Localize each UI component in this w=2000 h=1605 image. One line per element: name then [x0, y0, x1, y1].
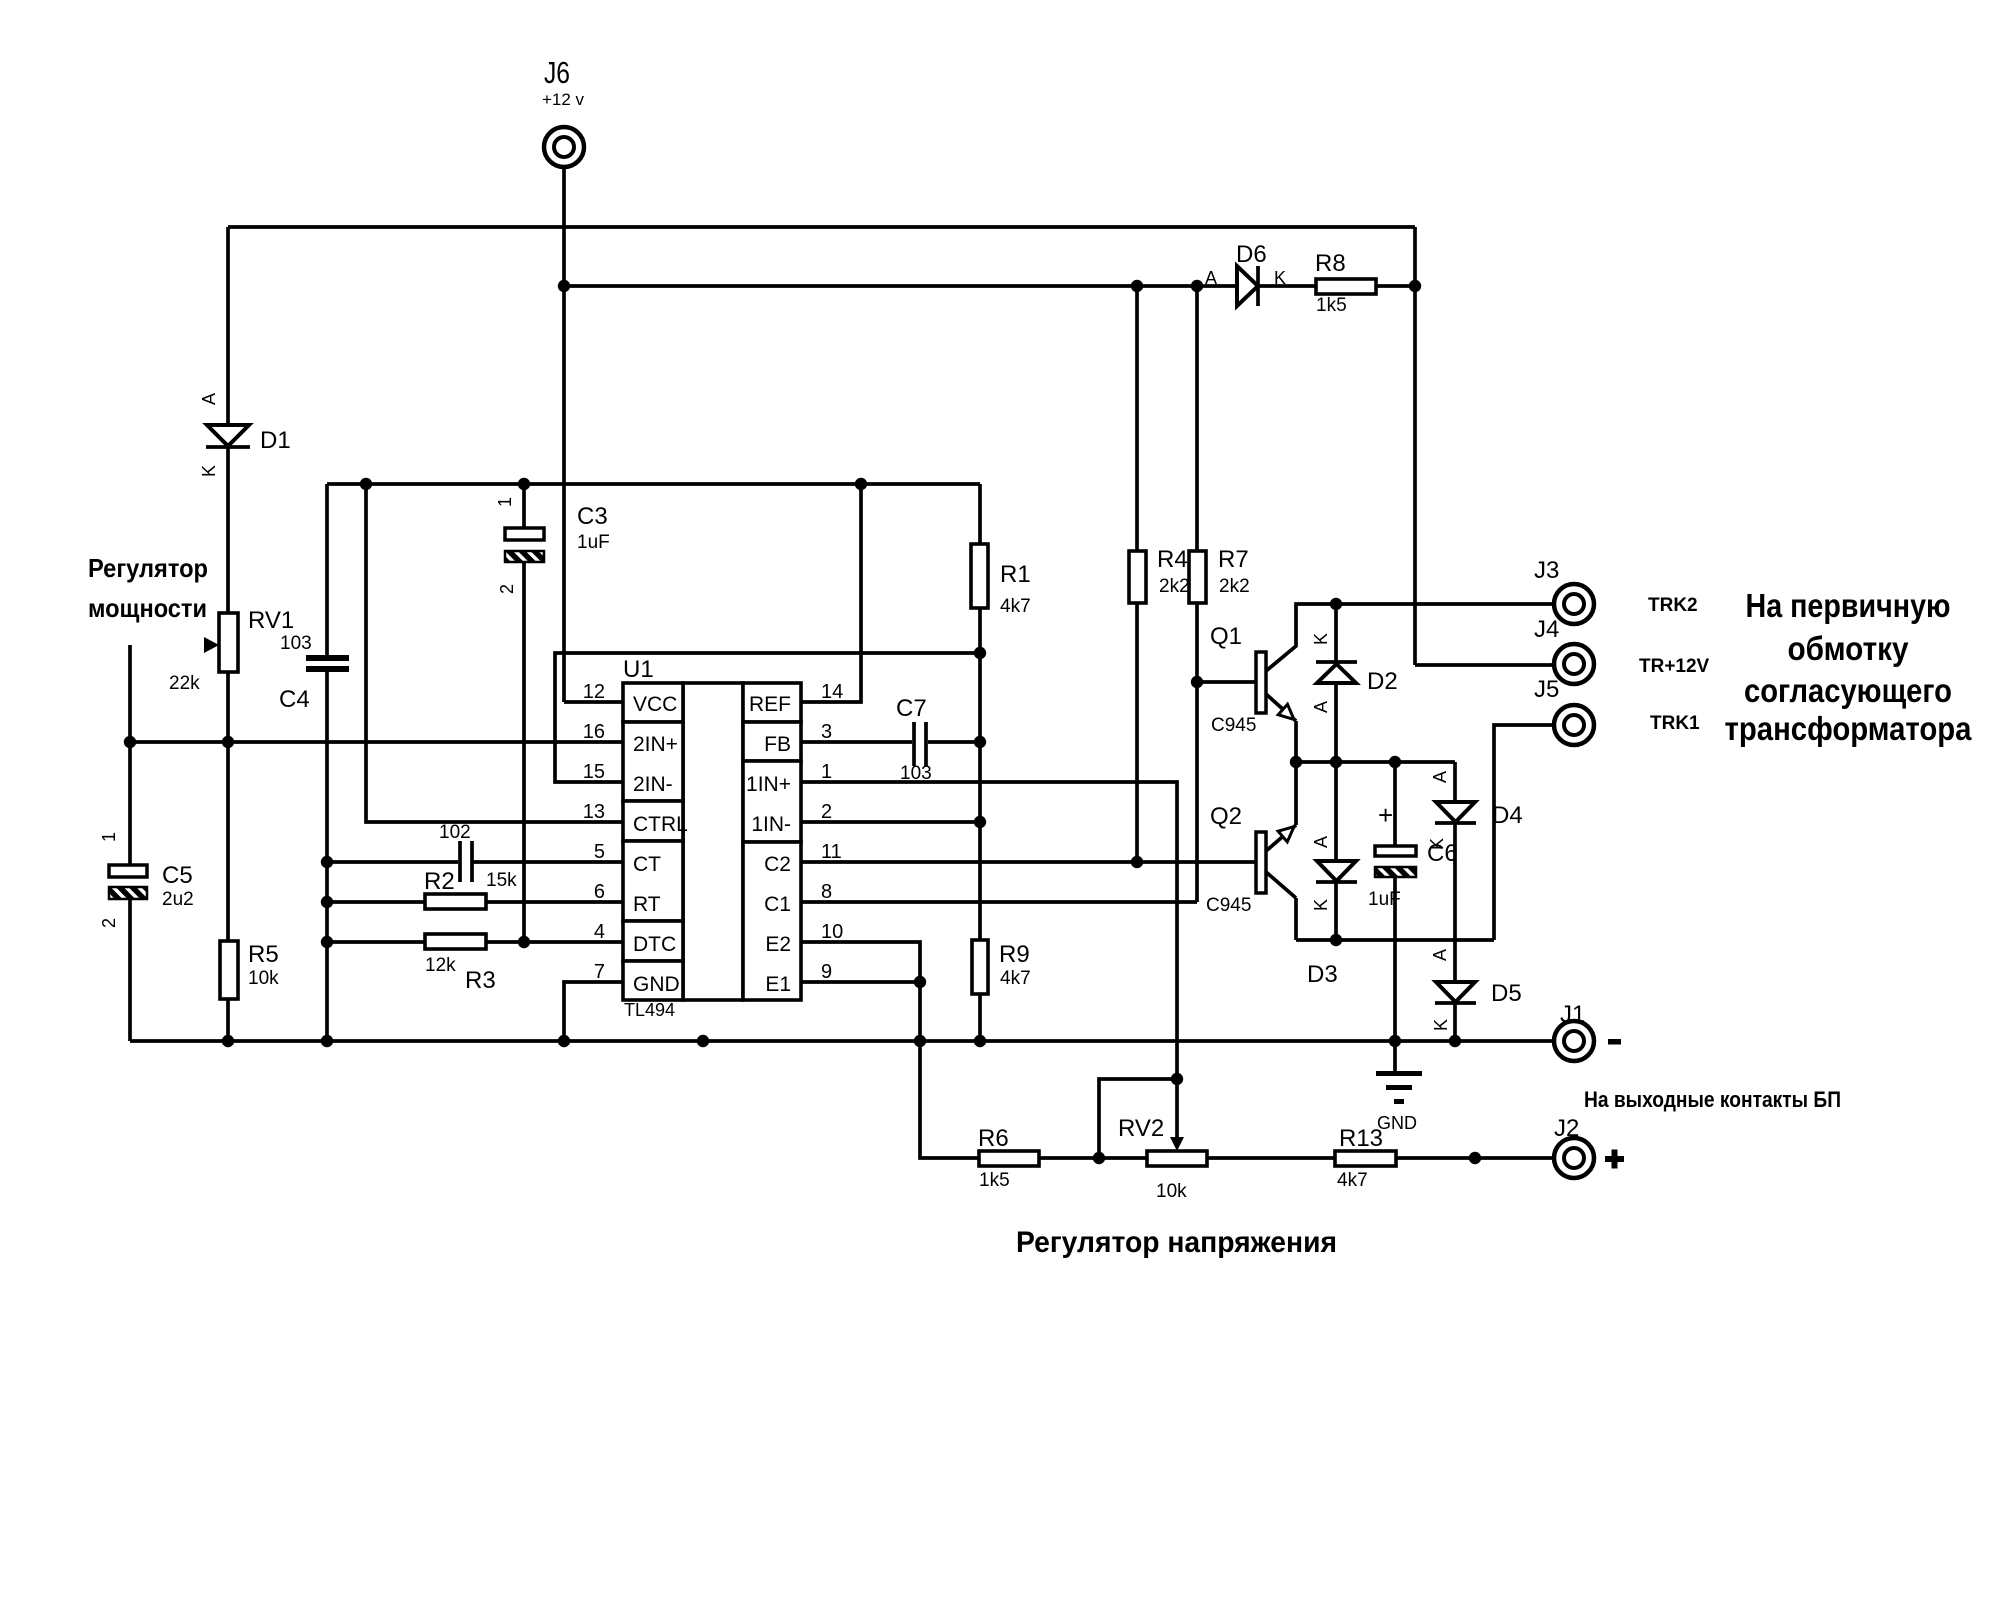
wire FB right of C7 [928, 740, 980, 744]
svg-text:R4: R4 [1157, 546, 1188, 573]
wire RT line right [486, 900, 623, 904]
U1 pin 6 RT [594, 881, 661, 916]
wire R1 bottom to R9 [978, 608, 982, 940]
svg-text:R1: R1 [1000, 561, 1031, 588]
svg-text:R2: R2 [424, 868, 455, 895]
svg-text:5: 5 [594, 841, 605, 863]
resistor R1 [971, 544, 1031, 617]
wire R9 bottom lead [978, 994, 982, 1041]
wire D4 top lead [1453, 762, 1457, 802]
connector J5 TRK1 [1534, 676, 1594, 745]
wire J4 wire [1415, 663, 1554, 667]
svg-text:102: 102 [439, 822, 471, 843]
resistor R2 [424, 868, 517, 909]
wire DTC line right [486, 940, 623, 944]
svg-text:D5: D5 [1491, 980, 1522, 1007]
node junction at 1336,940 [1330, 934, 1342, 946]
node junction at 980,653 [974, 647, 986, 659]
wire C6 top lead [1393, 762, 1397, 846]
wire RV2 wiper shaft [1175, 1079, 1179, 1140]
svg-text:E2: E2 [765, 933, 791, 956]
svg-text:D4: D4 [1492, 802, 1523, 829]
svg-text:14: 14 [821, 681, 843, 703]
wire D6 to R8 [1258, 284, 1316, 288]
node junction at 1099,1158 [1093, 1152, 1105, 1164]
resistor R8 [1315, 250, 1376, 316]
svg-text:J5: J5 [1534, 676, 1559, 703]
wire R1 top lead [978, 484, 982, 544]
svg-text:1uF: 1uF [1368, 889, 1401, 910]
resistor R3 [425, 934, 496, 994]
wire RV2-R13 wire [1207, 1156, 1335, 1160]
U1 pin 16 2IN+ [583, 721, 678, 756]
wire J5 route [1494, 725, 1554, 940]
label to primary winding [1725, 587, 1973, 747]
svg-text:Регулятор напряжения: Регулятор напряжения [1016, 1226, 1337, 1259]
transistor Q2 C945 [1206, 803, 1294, 916]
wire C4 top lead [325, 484, 329, 656]
svg-text:22k: 22k [169, 673, 200, 694]
svg-text:C7: C7 [896, 695, 927, 722]
svg-text:C945: C945 [1206, 895, 1251, 916]
svg-text:TL494: TL494 [624, 1000, 675, 1020]
svg-text:15: 15 [583, 761, 605, 783]
svg-text:J2: J2 [1554, 1115, 1579, 1142]
potentiometer RV2 [1118, 1115, 1207, 1202]
node junction at 564,1041 [558, 1035, 570, 1047]
resistor R7 [1189, 546, 1250, 603]
U1 pin 3 FB [764, 721, 832, 756]
svg-text:103: 103 [280, 633, 312, 654]
svg-text:7: 7 [594, 961, 605, 983]
svg-text:DTC: DTC [633, 933, 676, 956]
diode D2 [1311, 633, 1398, 713]
svg-text:D1: D1 [260, 427, 291, 454]
svg-text:R5: R5 [248, 941, 279, 968]
U1 pin 14 REF [749, 681, 843, 716]
op-amp U1 TL494 body [623, 656, 743, 1020]
wire R4 top lead [1135, 286, 1139, 551]
node junction at 366,484 [360, 478, 372, 490]
wire E1 line [801, 980, 920, 984]
svg-text:C2: C2 [764, 853, 791, 876]
U1 pin 12 VCC [583, 681, 678, 716]
svg-text:обмотку: обмотку [1788, 630, 1910, 667]
svg-text:На первичную: На первичную [1746, 587, 1951, 624]
U1 pin 10 E2 [765, 921, 843, 956]
wire R8 to corner [1376, 284, 1415, 288]
svg-text:K: K [1431, 1019, 1451, 1031]
svg-text:A: A [199, 393, 219, 405]
svg-text:K: K [199, 465, 219, 477]
capacitor 102 on CT [439, 822, 472, 882]
U1 pin 7 GND [594, 961, 680, 996]
wire Q2 collector [1266, 872, 1296, 940]
svg-text:1: 1 [495, 497, 515, 507]
svg-text:+: + [1378, 800, 1393, 830]
label TR+12V [1639, 656, 1710, 677]
svg-text:CTRL: CTRL [633, 813, 688, 836]
wire D6 anode wire [564, 284, 1237, 288]
label to PSU output contacts [1584, 1087, 1841, 1112]
node junction at 1336,762 [1330, 756, 1342, 768]
resistor R9 [972, 940, 1031, 994]
wire Q1 collector to J3 [1266, 604, 1554, 671]
wire D4-D5 link [1453, 823, 1457, 982]
svg-text:R7: R7 [1218, 546, 1249, 573]
wire REF net horizontal [327, 482, 980, 486]
svg-text:1IN-: 1IN- [751, 813, 791, 836]
U1 pin 2 1IN- [751, 801, 832, 836]
U1 left pin boxes [623, 683, 683, 1000]
U1 pin 11 C2 [764, 841, 842, 876]
node junction at 1395,762 [1389, 756, 1401, 768]
svg-text:2IN-: 2IN- [633, 773, 673, 796]
U1 pin 5 CT [594, 841, 661, 876]
node junction at 1197,682 [1191, 676, 1203, 688]
svg-text:A: A [1430, 771, 1450, 783]
svg-text:D2: D2 [1367, 668, 1398, 695]
node junction at 1197,286 [1191, 280, 1203, 292]
resistor R4 [1129, 546, 1190, 603]
svg-text:4k7: 4k7 [1000, 596, 1031, 617]
node junction at 703,1041 [697, 1035, 709, 1047]
svg-text:10k: 10k [1156, 1181, 1187, 1202]
wire DTC line left [327, 940, 425, 944]
svg-text:C1: C1 [764, 893, 791, 916]
U1 pin 1 1IN+ [746, 761, 832, 796]
node junction at 1415,286 [1409, 280, 1421, 292]
svg-text:J6: J6 [544, 55, 570, 90]
svg-text:FB: FB [764, 733, 791, 756]
svg-text:A: A [1311, 701, 1331, 713]
svg-text:R8: R8 [1315, 250, 1346, 277]
svg-text:согласующего: согласующего [1744, 672, 1952, 709]
node junction at 327,1041 [321, 1035, 333, 1047]
wire J6 down to VCC [564, 167, 623, 702]
U1 pin 4 DTC [594, 921, 676, 956]
node junction at 920,1041 [914, 1035, 926, 1047]
svg-text:RV1: RV1 [248, 607, 294, 634]
svg-text:TRK2: TRK2 [1648, 595, 1698, 616]
svg-text:A: A [1311, 836, 1331, 848]
svg-text:16: 16 [583, 721, 605, 743]
node junction at 980,1041 [974, 1035, 986, 1047]
resistor R5 [220, 941, 279, 999]
node junction at 1395,1041 [1389, 1035, 1401, 1047]
label TRK1 [1650, 713, 1700, 734]
wire RV1 to R5 via 2IN+ tap [226, 672, 230, 941]
capacitor C6 [1368, 800, 1458, 910]
svg-text:R6: R6 [978, 1125, 1009, 1152]
wire R13-J2 wire [1396, 1156, 1554, 1160]
wire D2-D3 middle [1334, 683, 1338, 861]
wire C4 bottom to ground [325, 672, 329, 1041]
svg-text:10: 10 [821, 921, 843, 943]
svg-text:Q2: Q2 [1210, 803, 1242, 830]
connector J2 plus [1554, 1115, 1624, 1178]
wire driver mid bus [1296, 760, 1455, 764]
U1 pin 13 CTRL [583, 801, 688, 836]
node junction at 228,742 [222, 736, 234, 748]
node junction at 980,822 [974, 816, 986, 828]
svg-text:1k5: 1k5 [979, 1170, 1010, 1191]
wire D2 top lead [1334, 604, 1338, 662]
svg-text:R13: R13 [1339, 1125, 1383, 1152]
svg-text:REF: REF [749, 693, 791, 716]
wire lower bus TRK1 [1296, 938, 1494, 942]
svg-text:C5: C5 [162, 862, 193, 889]
svg-text:K: K [1311, 633, 1331, 645]
wire C3 bottom lead to DTC [522, 562, 526, 942]
wire R7 top lead [1195, 286, 1199, 551]
svg-text:D6: D6 [1236, 241, 1267, 268]
wire RT line left [327, 900, 425, 904]
wire C5 branch upper [128, 645, 132, 865]
svg-text:A: A [1430, 949, 1450, 961]
diode D1 [199, 393, 291, 477]
wire D3 bottom lead [1334, 882, 1338, 940]
svg-text:9: 9 [821, 961, 832, 983]
svg-text:VCC: VCC [633, 693, 677, 716]
svg-text:2k2: 2k2 [1159, 576, 1190, 597]
wire FB left of C7 [801, 740, 912, 744]
diode D6 [1205, 241, 1286, 306]
svg-text:J4: J4 [1534, 616, 1559, 643]
svg-text:15k: 15k [486, 870, 517, 891]
node junction at 980,742 [974, 736, 986, 748]
svg-text:K: K [1311, 899, 1331, 911]
svg-text:U1: U1 [623, 656, 654, 683]
wire D5 bottom lead [1453, 1003, 1457, 1041]
wire C6 bottom lead to GND [1393, 877, 1397, 1071]
wire R4 bottom lead [1135, 603, 1139, 862]
svg-text:103: 103 [900, 763, 932, 784]
svg-text:трансформатора: трансформатора [1725, 710, 1973, 747]
svg-text:1uF: 1uF [577, 532, 610, 553]
U1 pin 15 2IN- [583, 761, 673, 796]
diode D3 [1307, 836, 1357, 988]
svg-text:CT: CT [633, 853, 661, 876]
svg-text:10k: 10k [248, 968, 279, 989]
U1 right pin boxes [743, 683, 801, 1000]
svg-text:4k7: 4k7 [1000, 968, 1031, 989]
svg-text:RT: RT [633, 893, 661, 916]
wire C5 branch lower [128, 899, 132, 1041]
svg-text:TRK1: TRK1 [1650, 713, 1700, 734]
svg-text:R3: R3 [465, 967, 496, 994]
node junction at 1336,604 [1330, 598, 1342, 610]
node junction at 327,942 [321, 936, 333, 948]
wire RV2 left terminal loop [1099, 1079, 1177, 1158]
label power regulator [88, 553, 208, 623]
svg-text:2k2: 2k2 [1219, 576, 1250, 597]
svg-text:2: 2 [497, 584, 517, 594]
svg-text:11: 11 [821, 841, 842, 863]
wire ground bus [130, 1039, 1554, 1043]
svg-text:C3: C3 [577, 503, 608, 530]
capacitor C3 [495, 497, 610, 594]
svg-text:E1: E1 [765, 973, 791, 996]
svg-text:1IN+: 1IN+ [746, 773, 791, 796]
wire GND pin 7 route [564, 982, 623, 1041]
svg-text:GND: GND [633, 973, 680, 996]
ground symbol GND [1376, 1071, 1422, 1133]
node junction at 920,982 [914, 976, 926, 988]
svg-text:Регулятор: Регулятор [88, 553, 208, 583]
node junction at 1137,286 [1131, 280, 1143, 292]
svg-text:RV2: RV2 [1118, 1115, 1164, 1142]
svg-text:2IN+: 2IN+ [633, 733, 678, 756]
potentiometer RV1 [169, 607, 294, 694]
svg-text:1k5: 1k5 [1316, 295, 1347, 316]
label voltage regulator [1016, 1226, 1337, 1259]
transistor Q1 C945 [1210, 623, 1294, 736]
capacitor C5 [99, 832, 194, 928]
wire 1IN+ route to RV2 wiper [801, 782, 1177, 1079]
wire C1 line [801, 900, 1197, 904]
node junction at 327,902 [321, 896, 333, 908]
node junction at 130,742 [124, 736, 136, 748]
svg-text:1: 1 [821, 761, 832, 783]
capacitor C4 [279, 633, 349, 713]
node junction at 1455,1041 [1449, 1035, 1461, 1047]
wire top +12V bus [228, 225, 1415, 229]
label TRK2 [1648, 595, 1698, 616]
svg-text:4: 4 [594, 921, 605, 943]
svg-text:D3: D3 [1307, 961, 1338, 988]
svg-text:1: 1 [99, 832, 119, 842]
svg-text:4k7: 4k7 [1337, 1170, 1368, 1191]
connector J6 +12v [542, 55, 585, 167]
node junction at 1177,1079 [1171, 1073, 1183, 1085]
svg-text:6: 6 [594, 881, 605, 903]
wire REF pin route [801, 484, 861, 702]
node junction at 1475,1158 [1469, 1152, 1481, 1164]
wire Q1 base wire [1197, 680, 1256, 684]
resistor R13 [1335, 1125, 1396, 1191]
U1 pin 8 C1 [764, 881, 832, 916]
node junction at 524,942 [518, 936, 530, 948]
node junction at 564,286 [558, 280, 570, 292]
connector J3 TRK2 [1534, 557, 1594, 624]
svg-text:C6: C6 [1427, 840, 1458, 867]
svg-text:C945: C945 [1211, 715, 1256, 736]
node junction at 327,862 [321, 856, 333, 868]
svg-text:J1: J1 [1560, 1001, 1585, 1028]
svg-text:Q1: Q1 [1210, 623, 1242, 650]
svg-text:На выходные контакты БП: На выходные контакты БП [1584, 1087, 1841, 1112]
svg-text:A: A [1205, 268, 1217, 288]
wire R5 to ground bus [226, 999, 230, 1041]
wire 2IN- feedback route [555, 653, 980, 782]
capacitor C7 [896, 695, 932, 784]
svg-text:+12 v: +12 v [542, 90, 585, 109]
svg-text:TR+12V: TR+12V [1639, 656, 1710, 677]
wire Q2 emitter [1266, 762, 1296, 851]
connector J4 TR+12V [1534, 616, 1594, 684]
node junction at 861,484 [855, 478, 867, 490]
wire CT line left [327, 860, 458, 864]
wire 1IN- line [801, 820, 980, 824]
wire C3 top lead [522, 484, 526, 528]
node junction at 1137,862 [1131, 856, 1143, 868]
wire CTRL route [366, 484, 623, 822]
svg-text:12: 12 [583, 681, 605, 703]
svg-text:мощности: мощности [88, 593, 207, 623]
wire D1 anode lead [226, 227, 230, 425]
U1 pin 9 E1 [765, 961, 832, 996]
diode D5 [1430, 949, 1522, 1031]
wire CT line right [473, 860, 623, 864]
svg-text:2u2: 2u2 [162, 889, 194, 910]
connector J1 minus [1554, 1001, 1621, 1061]
svg-text:3: 3 [821, 721, 832, 743]
wire E2 route to R6 [801, 942, 979, 1158]
svg-text:C4: C4 [279, 686, 310, 713]
wire C2 line to Q2 base [801, 860, 1256, 864]
wire 2IN+ line [130, 740, 623, 744]
svg-text:R9: R9 [999, 941, 1030, 968]
wire R6-RV2 wire [1039, 1156, 1147, 1160]
node junction at 524,484 [518, 478, 530, 490]
wire D1 cathode to RV1 [226, 447, 230, 613]
svg-text:8: 8 [821, 881, 832, 903]
svg-text:2: 2 [821, 801, 832, 823]
diode D4 [1427, 771, 1523, 850]
wire R7 lower lead / Q1 base net [1195, 603, 1199, 902]
resistor R6 [978, 1125, 1039, 1191]
node junction at 1296,762 [1290, 756, 1302, 768]
svg-text:12k: 12k [425, 955, 456, 976]
svg-text:2: 2 [99, 918, 119, 928]
node junction at 228,1041 [222, 1035, 234, 1047]
wire right drop to J4 [1413, 227, 1417, 665]
svg-text:K: K [1274, 268, 1286, 288]
svg-text:13: 13 [583, 801, 605, 823]
svg-text:J3: J3 [1534, 557, 1559, 584]
wire Q1 emitter [1266, 694, 1296, 762]
